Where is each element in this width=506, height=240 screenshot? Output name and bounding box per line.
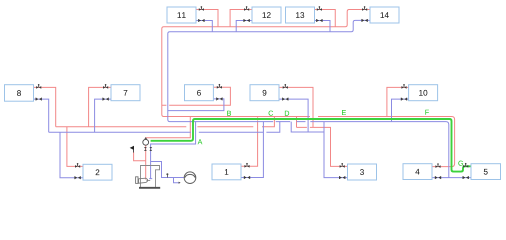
thermostatic valve radiator 12 [244,6,249,11]
wire: radiator 7 supply branch [89,87,111,126]
radiator box 4 [403,164,432,180]
label radiator 3 [360,169,364,175]
wire: radiator 3 return via drop at D [291,122,347,178]
air separator top cap [145,138,147,140]
label radiator 6 [197,90,201,96]
wire: radiator 1 return drop [241,122,263,178]
wire: radiator 8 return branch [34,99,49,132]
wire: radiator 10 supply branch [387,87,409,116]
label radiator 7 [124,90,128,96]
burner flame body [139,178,148,183]
wire: radiator 6 return branch to riser [168,99,224,111]
wire: radiator 6 supply branch to riser [162,87,231,105]
wire: radiator 10 return branch [392,99,409,122]
pump circle [184,172,196,184]
pump inner arc [185,174,196,177]
lockshield valve radiator 3 [339,176,345,179]
radiator box 5 [471,164,501,180]
lockshield valve radiator 13 [317,19,323,22]
wire: red supply main (top bus to radiator 14, riser, main bundle to valve at radiator 4) [162,10,455,167]
thermostatic valve radiator 1 [244,163,249,168]
wire: left red supply bus y=126.7 with crossing gaps [56,117,275,127]
isolating valve on boiler return pipe [149,147,152,151]
wire: boiler supply step-down and flow pipe with safety-valve loop [134,117,191,180]
drain arrowhead [179,182,181,184]
lockshield valve radiator 5 [463,176,469,179]
label radiator 11 [178,12,186,18]
radiator box 11 [167,7,196,23]
thermostatic valve radiator 11 [199,6,204,11]
wire: radiator 13 supply drop [315,10,336,27]
wire: blue return main (radiator 14, top bus, riser, main bundle, drop to radiators 4-5) [168,20,449,177]
label radiator 10 [419,90,427,96]
lockshield valve radiator 8 [36,98,42,101]
radiator box 6 [185,85,214,101]
label radiator 5 [484,169,488,175]
thermostatic valve radiator 10 [401,84,406,89]
net label E [342,110,346,115]
safety valve flag [131,146,134,152]
lockshield valve radiator 10 [401,98,407,101]
label radiator 2 [96,169,100,175]
label radiator 1 [225,169,229,175]
lockshield valve radiator 2 [75,176,81,179]
thermostatic valve radiator 3 [340,163,345,168]
wire: radiator 2 supply drop [67,127,83,167]
net label G [458,161,463,166]
lockshield valve radiator 6 [217,97,223,100]
burner nozzle line [147,179,151,181]
lockshield valve radiator 12 [244,19,250,22]
lockshield valve radiator 7 [103,98,109,101]
lockshield valve radiator 4 [435,176,441,179]
radiator box 14 [370,7,399,23]
lockshield valve radiator 9 [283,98,289,101]
label radiator 4 [415,169,419,175]
wire: boiler return step-down into boiler with end tick [149,122,195,179]
burner block [136,177,138,184]
wire: radiator 9 supply branch [279,87,313,127]
thermostatic valve radiator 4 [435,163,440,168]
net label C [269,111,274,116]
radiator box 3 [348,164,377,180]
wire: left blue return bus y=132.3 with crossing gaps [49,122,280,133]
radiator box 2 [83,164,112,180]
thermostatic valve radiator 6 [217,84,222,89]
net label D [285,111,289,116]
wire: radiator 2 return drop [60,132,83,177]
wire: radiator 1 supply drop (gap at green crossing) [241,117,258,167]
wire: supply drop at D feeding radiator 3 [297,117,348,167]
radiator box 10 [409,85,438,101]
label radiator 9 [263,90,267,96]
radiator box 7 [111,85,140,101]
wire: drain stub off pump line [174,178,180,183]
wire: radiator 12 return drop [236,21,252,32]
air separator circle on supply pipe [143,139,149,145]
thermostatic valve radiator 2 [75,163,80,168]
net label A [198,139,203,144]
wire: pump suction line from boiler return [151,162,184,178]
label radiator 12 [263,12,271,18]
radiator box 13 [286,7,315,23]
boiler outline [141,166,160,189]
boiler base bar [139,187,160,189]
thermostatic valve radiator 7 [103,84,108,89]
label radiator 8 [17,90,21,96]
thermostatic valve radiator 8 [36,84,41,89]
wire: green highlighted circuit A-G from boiler to radiator 5 [151,119,471,172]
radiator box 8 [5,85,34,102]
wire: radiator 9 return branch joining drop at D [279,99,308,132]
air vent pin on pump line [166,175,168,178]
radiator box 12 [252,7,281,23]
wire: radiator 7 return branch [95,99,111,132]
label radiator 13 [296,12,304,18]
wire: return header through radiator 4 and 5 lockshield valves [432,177,471,179]
label radiator 14 [381,12,389,18]
lockshield valve radiator 14 [362,19,368,22]
net label B [227,111,231,116]
wire: radiator 12 supply drop [230,10,252,27]
thermostatic valve radiator 14 [362,6,367,11]
radiator box 1 [212,164,241,180]
isolating valve on boiler flow pipe [144,147,147,151]
thermostatic valve radiator 5 [463,163,468,168]
lockshield valve radiator 1 [244,176,250,179]
thermostatic valve radiator 13 [317,6,322,11]
thermostatic valve radiator 9 [283,84,288,89]
wire: radiator 13 return drop [315,21,331,32]
wire: radiator 8 supply branch [34,87,56,126]
wire: radiator 11 return drop [196,21,212,32]
lockshield valve radiator 11 [199,19,205,22]
net label F [425,110,429,115]
radiator box 9 [250,85,279,101]
wire: radiator 11 supply drop [196,10,218,27]
